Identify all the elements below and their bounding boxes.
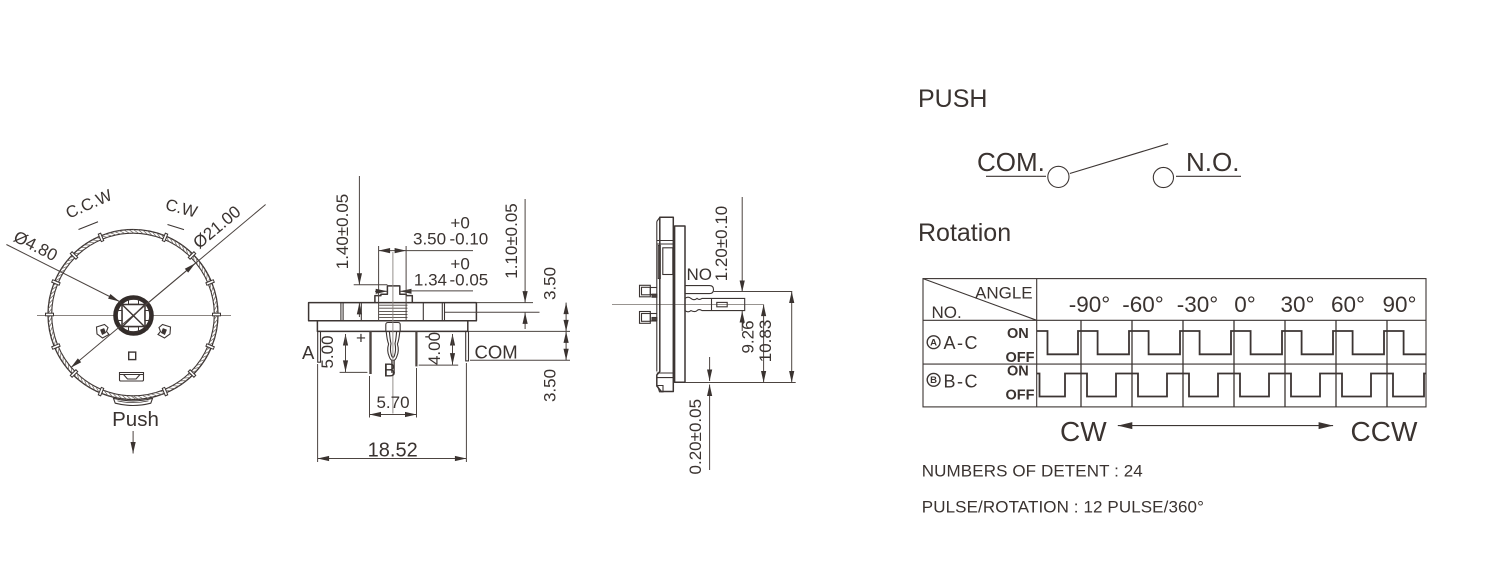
svg-text:10.83: 10.83: [756, 320, 775, 363]
svg-text:3.50: 3.50: [541, 267, 560, 300]
svg-text:A: A: [302, 342, 315, 363]
svg-text:+0: +0: [450, 214, 469, 233]
svg-text:NO: NO: [687, 265, 713, 284]
svg-text:Push: Push: [112, 408, 159, 431]
svg-text:PUSH: PUSH: [918, 85, 987, 113]
svg-text:CCW: CCW: [1351, 416, 1418, 447]
svg-text:1.40±0.05: 1.40±0.05: [333, 194, 352, 270]
svg-text:CW: CW: [1060, 416, 1107, 447]
svg-text:-: -: [425, 327, 431, 346]
svg-text:OFF: OFF: [1006, 388, 1035, 404]
svg-text:+: +: [356, 329, 366, 348]
svg-text:18.52: 18.52: [368, 440, 418, 462]
svg-text:NUMBERS OF DETENT : 24: NUMBERS OF DETENT : 24: [922, 462, 1143, 481]
svg-text:3.50: 3.50: [541, 369, 560, 402]
svg-text:COM.: COM.: [977, 147, 1045, 177]
svg-text:-30°: -30°: [1177, 292, 1219, 317]
svg-text:B: B: [384, 360, 396, 381]
svg-text:1.20±0.10: 1.20±0.10: [712, 206, 731, 282]
svg-text:+0: +0: [450, 255, 469, 274]
svg-text:ANGLE: ANGLE: [975, 284, 1033, 303]
svg-text:1.10±0.05: 1.10±0.05: [502, 203, 521, 279]
svg-text:0°: 0°: [1234, 292, 1256, 317]
svg-text:Rotation: Rotation: [918, 219, 1011, 247]
svg-text:9.26: 9.26: [739, 320, 758, 353]
svg-text:C.W: C.W: [163, 196, 199, 222]
svg-text:NO.: NO.: [932, 303, 962, 322]
svg-text:ON: ON: [1007, 326, 1029, 342]
svg-text:60°: 60°: [1331, 292, 1365, 317]
svg-text:B: B: [930, 375, 937, 386]
svg-text:30°: 30°: [1280, 292, 1314, 317]
svg-text:A: A: [930, 338, 937, 349]
svg-text:B-C: B-C: [944, 372, 980, 392]
svg-text:5.70: 5.70: [376, 393, 409, 412]
svg-text:A-C: A-C: [944, 333, 980, 353]
svg-text:N.O.: N.O.: [1186, 147, 1239, 177]
svg-text:PULSE/ROTATION : 12 PULSE/360°: PULSE/ROTATION : 12 PULSE/360°: [922, 498, 1204, 517]
svg-text:0.20±0.05: 0.20±0.05: [686, 399, 705, 475]
svg-text:90°: 90°: [1382, 292, 1416, 317]
svg-text:1.34: 1.34: [414, 271, 447, 290]
svg-text:-60°: -60°: [1122, 292, 1164, 317]
svg-text:3.50: 3.50: [413, 230, 446, 249]
svg-text:ON: ON: [1007, 364, 1029, 380]
svg-text:5.00: 5.00: [318, 335, 337, 368]
svg-text:-90°: -90°: [1069, 292, 1111, 317]
svg-text:COM: COM: [475, 342, 518, 363]
svg-text:C.C.W: C.C.W: [63, 186, 115, 222]
